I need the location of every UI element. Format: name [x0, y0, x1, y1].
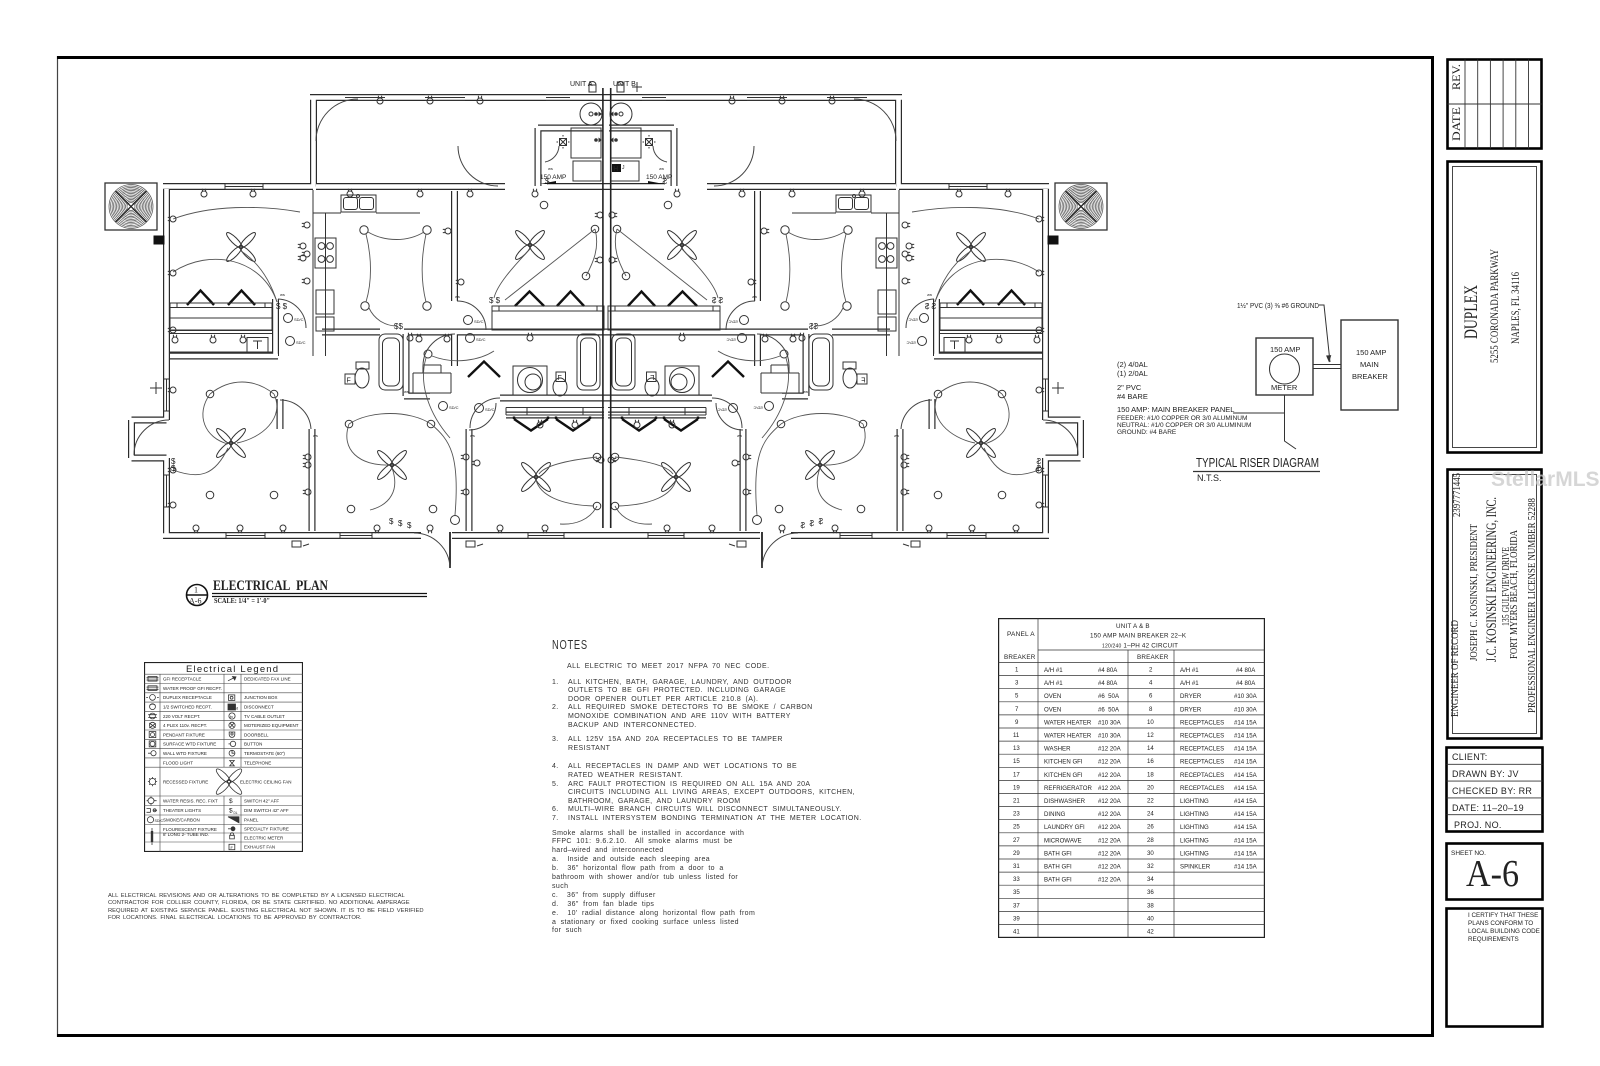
- svg-text:6: 6: [1149, 693, 1153, 700]
- svg-text:A-6: A-6: [189, 597, 201, 606]
- svg-text:H: H: [613, 166, 618, 173]
- svg-text:JUNCTION BOX: JUNCTION BOX: [244, 695, 278, 700]
- svg-text:37: 37: [1013, 902, 1020, 909]
- svg-text:OVEN: OVEN: [1044, 706, 1061, 713]
- right column symbols: [215, 677, 244, 850]
- svg-text:(1) 2/0AL: (1) 2/0AL: [1117, 369, 1148, 378]
- svg-text:RECEPTACLES: RECEPTACLES: [1180, 772, 1224, 779]
- svg-text:1/2 SWITCHED RECPT.: 1/2 SWITCHED RECPT.: [163, 705, 212, 710]
- svg-text:12: 12: [1147, 732, 1154, 739]
- svg-text:34: 34: [1147, 876, 1154, 883]
- svg-text:DIM SWITCH 42" AFF: DIM SWITCH 42" AFF: [244, 808, 289, 813]
- svg-text:#14 15A: #14 15A: [1234, 798, 1258, 805]
- svg-text:25: 25: [1013, 824, 1020, 831]
- svg-text:EXHAUST FAN: EXHAUST FAN: [244, 845, 275, 850]
- svg-text:SCALE: 1/4" = 1'-0": SCALE: 1/4" = 1'-0": [214, 596, 270, 605]
- svg-text:#6 50A: #6 50A: [1098, 706, 1120, 713]
- svg-text:DINING: DINING: [1044, 811, 1066, 818]
- svg-text:18: 18: [1147, 771, 1154, 778]
- svg-text:5255 CORONADA PARKWAY: 5255 CORONADA PARKWAY: [1487, 249, 1501, 363]
- svg-text:WATER HEATER: WATER HEATER: [1044, 733, 1092, 740]
- svg-text:15: 15: [1013, 758, 1020, 765]
- svg-text:BUTTON: BUTTON: [244, 742, 262, 747]
- svg-text:BATH GFI: BATH GFI: [1044, 864, 1072, 871]
- svg-text:#14 15A: #14 15A: [1234, 824, 1258, 831]
- svg-text:UNIT A & B: UNIT A & B: [1116, 623, 1150, 630]
- svg-text:5: 5: [1015, 693, 1019, 700]
- svg-text:TELEPHONE: TELEPHONE: [244, 760, 271, 765]
- svg-text:#14 15A: #14 15A: [1234, 850, 1258, 857]
- svg-text:ELECTRIC CEILING FAN: ELECTRIC CEILING FAN: [240, 779, 292, 784]
- svg-text:NAPLES, FL 34116: NAPLES, FL 34116: [1508, 272, 1522, 344]
- svg-text:#12 20A: #12 20A: [1098, 746, 1122, 753]
- svg-text:SWITCH 42" AFF: SWITCH 42" AFF: [244, 799, 279, 804]
- svg-text:35: 35: [1013, 889, 1020, 896]
- svg-text:1: 1: [194, 586, 198, 595]
- svg-text:BREAKER: BREAKER: [1137, 654, 1169, 661]
- svg-text:FLOOD LIGHT: FLOOD LIGHT: [163, 760, 193, 765]
- svg-text:BATH GFI: BATH GFI: [1044, 850, 1072, 857]
- svg-text:9: 9: [1015, 719, 1019, 726]
- svg-text:#12 20A: #12 20A: [1098, 772, 1122, 779]
- svg-text:#14 15A: #14 15A: [1234, 733, 1258, 740]
- svg-text:28: 28: [1147, 837, 1154, 844]
- svg-text:DOORBELL: DOORBELL: [244, 732, 269, 737]
- svg-text:DUPLEX: DUPLEX: [1461, 285, 1482, 339]
- svg-text:#10 30A: #10 30A: [1234, 706, 1258, 713]
- svg-text:REV.: REV.: [1451, 64, 1463, 90]
- svg-text:FORT MYERS BEACH, FLORIDA: FORT MYERS BEACH, FLORIDA: [1509, 529, 1520, 659]
- svg-text:#4 80A: #4 80A: [1098, 667, 1118, 674]
- ENGINEER box: [1448, 470, 1542, 739]
- svg-text:PENDANT FIXTURE: PENDANT FIXTURE: [163, 732, 205, 737]
- svg-text:KITCHEN GFI: KITCHEN GFI: [1044, 759, 1083, 766]
- svg-text:SPINKLER: SPINKLER: [1180, 864, 1211, 871]
- svg-text:23: 23: [1013, 811, 1020, 818]
- svg-text:1: 1: [1015, 667, 1019, 674]
- svg-text:#4 80A: #4 80A: [1098, 680, 1118, 687]
- svg-text:MOTERIZED EQUIPMENT: MOTERIZED EQUIPMENT: [244, 723, 299, 728]
- svg-text:OVEN: OVEN: [1044, 693, 1061, 700]
- party wall center double line: [603, 88, 611, 528]
- svg-text:ELECTRICAL PLAN: ELECTRICAL PLAN: [213, 578, 328, 594]
- svg-text:DATE: DATE: [1451, 107, 1463, 141]
- svg-text:39: 39: [1013, 915, 1020, 922]
- svg-text:CHECKED BY: RR: CHECKED BY: RR: [1452, 786, 1532, 796]
- svg-text:#4 80A: #4 80A: [1236, 667, 1256, 674]
- feeder wires: [1313, 365, 1341, 369]
- svg-text:DISCONNECT: DISCONNECT: [244, 705, 274, 710]
- svg-text:DEDICATED FAX LINE: DEDICATED FAX LINE: [244, 677, 291, 682]
- svg-text:DRAWN BY: JV: DRAWN BY: JV: [1452, 769, 1519, 779]
- svg-text:#14 15A: #14 15A: [1234, 811, 1258, 818]
- svg-text:42: 42: [1147, 929, 1154, 936]
- svg-text:LIGHTING: LIGHTING: [1180, 837, 1209, 844]
- svg-text:tv: tv: [230, 714, 233, 719]
- svg-text:22: 22: [1147, 798, 1154, 805]
- svg-text:8: 8: [1149, 706, 1153, 713]
- svg-text:PANEL A: PANEL A: [1007, 631, 1035, 638]
- svg-text:LIGHTING: LIGHTING: [1180, 811, 1209, 818]
- svg-text:WATER HEATER: WATER HEATER: [1044, 719, 1092, 726]
- svg-text:150 AMP: 150 AMP: [540, 174, 566, 181]
- svg-text:GFI RECEPTACLE: GFI RECEPTACLE: [163, 677, 201, 682]
- svg-text:2: 2: [1149, 667, 1153, 674]
- svg-text:SURFACE WTD FIXTURE: SURFACE WTD FIXTURE: [163, 742, 216, 747]
- svg-text:NEUTRAL: #1/0 COPPER OR 3/0 AL: NEUTRAL: #1/0 COPPER OR 3/0 ALUMINUM: [1117, 422, 1251, 429]
- svg-text:150 AMP: MAIN BREAKER PANEL: 150 AMP: MAIN BREAKER PANEL: [1117, 405, 1234, 414]
- svg-text:#10 30A: #10 30A: [1098, 719, 1122, 726]
- svg-text:150 AMP: 150 AMP: [1356, 348, 1386, 357]
- electric meter (150 AMP): [1256, 338, 1313, 395]
- svg-text:FEEDER: #1/0 COPPER OR 3/0 ALU: FEEDER: #1/0 COPPER OR 3/0 ALUMINUM: [1117, 415, 1247, 422]
- svg-text:33: 33: [1013, 876, 1020, 883]
- svg-text:#12 20A: #12 20A: [1098, 864, 1122, 871]
- svg-text:A/H #1: A/H #1: [1044, 680, 1063, 687]
- svg-text:11: 11: [1013, 732, 1020, 739]
- svg-text:4 PLEX 110v. RECPT.: 4 PLEX 110v. RECPT.: [163, 723, 207, 728]
- svg-text:17: 17: [1013, 771, 1020, 778]
- svg-text:BREAKER: BREAKER: [1004, 654, 1036, 661]
- CERT box: [1447, 909, 1543, 1027]
- svg-text:#12 20A: #12 20A: [1098, 877, 1122, 884]
- svg-text:WASHER: WASHER: [1044, 746, 1071, 753]
- svg-text:RECEPTACLES: RECEPTACLES: [1180, 759, 1224, 766]
- svg-text:#12 20A: #12 20A: [1098, 824, 1122, 831]
- svg-text:2" PVC: 2" PVC: [1117, 383, 1142, 392]
- svg-text:#14 15A: #14 15A: [1234, 837, 1258, 844]
- svg-text:220 VOLT RECPT.: 220 VOLT RECPT.: [163, 714, 200, 719]
- svg-text:36: 36: [1147, 889, 1154, 896]
- svg-text:DATE: 11–20–19: DATE: 11–20–19: [1452, 803, 1524, 813]
- svg-text:DRYER: DRYER: [1180, 693, 1202, 700]
- svg-text:PLANS CONFORM TO: PLANS CONFORM TO: [1468, 920, 1533, 927]
- svg-text:29: 29: [1013, 850, 1020, 857]
- svg-text:TERMOSTATE (60"): TERMOSTATE (60"): [244, 751, 285, 756]
- legend text: [163, 677, 299, 850]
- svg-text:PROJ. NO.: PROJ. NO.: [1454, 820, 1502, 830]
- svg-text:LIGHTING: LIGHTING: [1180, 824, 1209, 831]
- svg-text:RECEPTACLES: RECEPTACLES: [1180, 785, 1224, 792]
- svg-text:RECEPTACLES: RECEPTACLES: [1180, 719, 1224, 726]
- svg-text:A/H #1: A/H #1: [1180, 667, 1199, 674]
- svg-text:SPECIALTY FIXTURE: SPECIALTY FIXTURE: [244, 826, 289, 831]
- svg-text:1½" PVC (3) ⅜ #6 GROUND: 1½" PVC (3) ⅜ #6 GROUND: [1237, 301, 1319, 310]
- svg-text:METER: METER: [1271, 383, 1298, 392]
- svg-text:RECESSED FIXTURE: RECESSED FIXTURE: [163, 779, 208, 784]
- svg-text:GROUND: #4 BARE: GROUND: #4 BARE: [1117, 429, 1177, 436]
- main breaker panel (150 AMP): [1341, 320, 1398, 410]
- svg-text:3: 3: [1015, 680, 1019, 687]
- svg-text:$: $: [229, 808, 233, 815]
- svg-text:WATER PROOF GFI RECPT.: WATER PROOF GFI RECPT.: [163, 686, 222, 691]
- svg-text:4: 4: [1149, 680, 1153, 687]
- svg-text:MAIN: MAIN: [1360, 360, 1379, 369]
- svg-text:(2) 4/0AL: (2) 4/0AL: [1117, 360, 1148, 369]
- svg-text:REFRIGERATOR: REFRIGERATOR: [1044, 785, 1092, 792]
- svg-text:#14 15A: #14 15A: [1234, 785, 1258, 792]
- svg-text:120/240 1–PH 42 CIRCUIT: 120/240 1–PH 42 CIRCUIT: [1102, 643, 1178, 650]
- svg-text:150 AMP MAIN BREAKER 22–K: 150 AMP MAIN BREAKER 22–K: [1090, 633, 1187, 640]
- svg-text:BATH GFI: BATH GFI: [1044, 877, 1072, 884]
- svg-text:#6 50A: #6 50A: [1098, 693, 1120, 700]
- svg-text:d: d: [236, 706, 238, 711]
- svg-text:LAUNDRY GFI: LAUNDRY GFI: [1044, 824, 1085, 831]
- svg-text:40: 40: [1147, 915, 1154, 922]
- DUPLEX box: [1448, 162, 1542, 453]
- svg-text:WALL WTD FIXTURE: WALL WTD FIXTURE: [163, 751, 207, 756]
- svg-text:#14 15A: #14 15A: [1234, 746, 1258, 753]
- svg-text:PANEL: PANEL: [244, 818, 259, 823]
- svg-text:A/H #1: A/H #1: [1044, 667, 1063, 674]
- REV/DATE table: [1448, 60, 1542, 149]
- svg-text:RECEPTACLES: RECEPTACLES: [1180, 733, 1224, 740]
- svg-text:DRYER: DRYER: [1180, 706, 1202, 713]
- svg-text:#14 15A: #14 15A: [1234, 864, 1258, 871]
- svg-text:LIGHTING: LIGHTING: [1180, 850, 1209, 857]
- svg-text:THEATER LIGHTS: THEATER LIGHTS: [163, 808, 201, 813]
- svg-text:$: $: [229, 798, 233, 805]
- svg-text:31: 31: [1013, 863, 1020, 870]
- svg-text:I CERTIFY THAT THESE: I CERTIFY THAT THESE: [1468, 912, 1538, 919]
- svg-text:21: 21: [1013, 798, 1020, 805]
- left column symbols: [146, 677, 163, 846]
- svg-text:14: 14: [1147, 745, 1154, 752]
- CLIENT box: [1447, 748, 1543, 832]
- svg-text:41: 41: [1013, 929, 1020, 936]
- svg-text:J: J: [622, 165, 625, 171]
- svg-text:KITCHEN GFI: KITCHEN GFI: [1044, 772, 1083, 779]
- svg-text:N.T.S.: N.T.S.: [1197, 473, 1222, 483]
- svg-text:MICROWAVE: MICROWAVE: [1044, 837, 1082, 844]
- svg-text:DUPLEX RECEPTACLE: DUPLEX RECEPTACLE: [163, 695, 212, 700]
- SHEET box: [1447, 844, 1543, 900]
- svg-text:DISHWASHER: DISHWASHER: [1044, 798, 1086, 805]
- svg-text:REQUIREMENTS: REQUIREMENTS: [1468, 936, 1519, 943]
- svg-text:A-6: A-6: [1466, 853, 1519, 895]
- svg-text:#12 20A: #12 20A: [1098, 850, 1122, 857]
- svg-text:DL: DL: [234, 811, 238, 815]
- svg-text:LIGHTING: LIGHTING: [1180, 798, 1209, 805]
- svg-text:10: 10: [1147, 719, 1154, 726]
- svg-text:30: 30: [1147, 850, 1154, 857]
- svg-text:32: 32: [1147, 863, 1154, 870]
- svg-text:#12 20A: #12 20A: [1098, 837, 1122, 844]
- svg-text:#4 80A: #4 80A: [1236, 680, 1256, 687]
- svg-text:LOCAL BUILDING CODE: LOCAL BUILDING CODE: [1468, 928, 1540, 935]
- svg-text:38: 38: [1147, 902, 1154, 909]
- ground conductor leader: [1319, 305, 1330, 362]
- svg-text:20: 20: [1147, 784, 1154, 791]
- svg-text:ELECTRIC METER: ELECTRIC METER: [244, 835, 284, 840]
- svg-text:19: 19: [1013, 784, 1020, 791]
- svg-text:WATER RESIS. REC. FIXT: WATER RESIS. REC. FIXT: [163, 799, 218, 804]
- svg-text:F: F: [231, 845, 234, 850]
- svg-text:13: 13: [1013, 745, 1020, 752]
- svg-text:2397771445: 2397771445: [1452, 473, 1463, 517]
- svg-text:TV CABLE OUTLET: TV CABLE OUTLET: [244, 714, 285, 719]
- svg-text:26: 26: [1147, 824, 1154, 831]
- svg-text:#10 30A: #10 30A: [1234, 693, 1258, 700]
- svg-text:7: 7: [1015, 706, 1019, 713]
- svg-text:8' LONG 2- TUBE IND.: 8' LONG 2- TUBE IND.: [163, 832, 209, 837]
- grid: [144, 674, 303, 852]
- svg-text:16: 16: [1147, 758, 1154, 765]
- svg-text:Electrical Legend: Electrical Legend: [186, 664, 279, 675]
- svg-text:#14 15A: #14 15A: [1234, 719, 1258, 726]
- svg-text:BREAKER: BREAKER: [1352, 372, 1388, 381]
- svg-text:24: 24: [1147, 811, 1154, 818]
- svg-text:RECEPTACLES: RECEPTACLES: [1180, 746, 1224, 753]
- svg-text:#14 15A: #14 15A: [1234, 759, 1258, 766]
- svg-text:TYPICAL RISER DIAGRAM: TYPICAL RISER DIAGRAM: [1196, 456, 1319, 470]
- svg-text:SMOKE/CARBON: SMOKE/CARBON: [163, 818, 200, 823]
- svg-text:#4 BARE: #4 BARE: [1117, 392, 1148, 401]
- svg-text:A/H #1: A/H #1: [1180, 680, 1199, 687]
- svg-text:#12 20A: #12 20A: [1098, 759, 1122, 766]
- svg-text:J.C. KOSINSKI ENGINEERING, INC: J.C. KOSINSKI ENGINEERING, INC.: [1484, 497, 1500, 662]
- svg-text:#12 20A: #12 20A: [1098, 798, 1122, 805]
- svg-text:#14 15A: #14 15A: [1234, 772, 1258, 779]
- svg-text:150 AMP: 150 AMP: [1270, 345, 1300, 354]
- svg-text:ENGINEER OF RECORD: ENGINEER OF RECORD: [1450, 620, 1461, 717]
- svg-text:27: 27: [1013, 837, 1020, 844]
- svg-text:JOSEPH C. KOSINSKI, PRESIDENT: JOSEPH C. KOSINSKI, PRESIDENT: [1469, 524, 1480, 661]
- svg-text:CLIENT:: CLIENT:: [1452, 752, 1488, 762]
- svg-text:150 AMP: 150 AMP: [646, 174, 672, 181]
- svg-text:#12 20A: #12 20A: [1098, 811, 1122, 818]
- svg-text:PROFESSIONAL ENGINEER LICENSE: PROFESSIONAL ENGINEER LICENSE NUMBER 522…: [1527, 498, 1538, 713]
- watermark: [1491, 468, 1600, 492]
- svg-text:#10 30A: #10 30A: [1098, 733, 1122, 740]
- svg-text:#12 20A: #12 20A: [1098, 785, 1122, 792]
